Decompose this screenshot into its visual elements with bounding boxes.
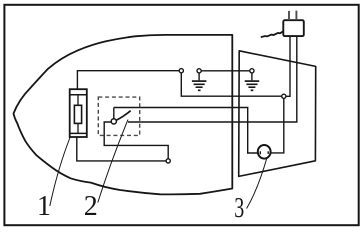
heel plate panel outline <box>239 51 316 177</box>
thermostat dashed enclosure <box>98 97 139 135</box>
switch 2 blade <box>116 111 130 121</box>
wire: terminal T2 to plug left cord <box>286 36 290 96</box>
wire: ground bus between terminals <box>201 70 250 72</box>
plug P1 body <box>283 20 304 36</box>
plug P1 prongs <box>289 11 296 21</box>
svg-text:1: 1 <box>37 191 51 222</box>
plug cord squiggle <box>261 31 283 37</box>
label 2 leader <box>98 120 128 203</box>
wire: heater bottom to terminal T3 <box>77 137 166 161</box>
wire: terminal T1 down and right to terminal T2 <box>181 73 281 96</box>
switch 2 pivot <box>111 119 116 124</box>
terminal T4 <box>197 69 201 73</box>
wire: heater top to terminal <box>77 71 179 90</box>
terminal T5 <box>250 69 254 73</box>
wire: switch pivot left to terminal T3 <box>104 122 168 159</box>
wire: terminal T2 down to lamp right <box>270 98 284 152</box>
terminal T1 <box>179 69 183 73</box>
wire: plug right cord down and left to switch contact <box>128 36 297 122</box>
terminal T2 <box>282 94 286 98</box>
svg-text:3: 3 <box>234 193 244 224</box>
ground symbol G2 <box>245 73 260 90</box>
label 1 leader <box>50 137 70 206</box>
terminal T3 <box>166 159 170 163</box>
iron enclosure outline <box>14 35 233 194</box>
svg-text:2: 2 <box>84 191 98 222</box>
label 3 leader <box>247 158 267 209</box>
wire: switch top run to lamp left <box>114 108 258 154</box>
ground symbol G1 <box>192 73 207 90</box>
indicator lamp 3 <box>258 145 271 159</box>
heating element 1 <box>70 89 87 137</box>
wire: switch pivot drop <box>113 108 115 119</box>
